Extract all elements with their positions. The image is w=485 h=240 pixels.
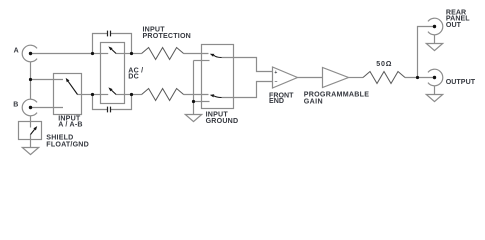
switch box SW1 INPUT A / A-B	[54, 74, 82, 115]
wire: capacitor C1 bypass left riser and lead	[93, 34, 108, 54]
resistor R1 INPUT PROTECTION (A path)	[142, 48, 184, 60]
switch arm SW2 shield float/gnd	[31, 129, 35, 134]
wire: capacitor C1 bypass right lead and riser	[111, 34, 132, 54]
wire: capacitor C2 bypass left riser and lead	[93, 95, 108, 110]
arrowhead SW4 bottom	[210, 94, 214, 97]
wire: resistor R1 left lead	[132, 53, 142, 55]
wire: SW2 box to ground symbol	[30, 140, 32, 148]
switch box SW4 INPUT GROUND	[202, 45, 234, 109]
svg-text:50Ω: 50Ω	[376, 60, 392, 68]
op-amp U1 FRONT END triangle	[273, 67, 298, 88]
node: output junction to rear panel riser	[416, 76, 419, 79]
wire: SW2 bottom contact stub	[30, 135, 32, 140]
node: A path capacitor junction left	[91, 52, 94, 55]
wire: input A center pin to first junction	[31, 53, 93, 55]
svg-text:PROTECTION: PROTECTION	[143, 32, 192, 40]
connector J4 OUTPUT (BNC circle)	[428, 69, 443, 86]
ground symbol below output	[426, 95, 442, 102]
resistor R2 INPUT PROTECTION (B path)	[142, 89, 184, 101]
arrowhead SW2	[33, 126, 37, 130]
wire: resistor R2 right lead into INPUT GROUND box	[184, 94, 209, 96]
switch arm SW4 input ground (bottom)	[214, 96, 222, 98]
node: A path capacitor junction right	[130, 52, 133, 55]
resistor R3 50 ohm output resistor	[363, 72, 405, 84]
wire: output shell to ground	[434, 86, 436, 95]
wire: B junction into AC/DC switch contact stub	[93, 94, 109, 96]
wire: shield bus junction to INPUT A/A-B box top input	[31, 79, 64, 81]
svg-text:+: +	[274, 70, 277, 76]
svg-text:A: A	[14, 47, 19, 54]
wire: AC/DC A switch output to junction	[116, 53, 131, 55]
node: rear panel out center pin	[433, 25, 436, 28]
node: shield bus junction	[29, 78, 32, 81]
svg-text:−: −	[275, 79, 278, 85]
connector J1 input A (BNC circle)	[22, 45, 37, 62]
node: B path capacitor junction right	[130, 93, 133, 96]
wire: shield bus junction down to input B shell	[30, 80, 32, 100]
wire: ground riser down to ground symbol	[193, 61, 195, 115]
arrowhead SW1	[66, 78, 70, 82]
node: output center pin	[433, 76, 436, 79]
arrowhead SW3 B	[108, 87, 112, 91]
wire: SW4 top ground contact from riser	[194, 60, 210, 62]
ground symbol below INPUT GROUND box	[185, 115, 201, 122]
svg-text:GROUND: GROUND	[206, 117, 239, 125]
wire: input A shell down to shield bus junction	[30, 62, 32, 80]
wire: SW1 common output to B-path junction	[78, 94, 93, 96]
svg-text:DC: DC	[128, 73, 139, 81]
svg-text:END: END	[269, 97, 284, 105]
wire: SW2 top contact stub	[30, 122, 32, 128]
wire: SW4 bottom ground contact from riser	[194, 101, 210, 103]
node: input B center pin	[29, 106, 32, 109]
coupling box SW3 AC / DC	[101, 43, 125, 104]
wire: AC/DC B switch output to junction	[116, 94, 131, 96]
svg-text:OUT: OUT	[446, 21, 462, 29]
wire: A junction into AC/DC switch contact stub	[93, 53, 109, 55]
wire: rear panel out shell to ground	[434, 35, 436, 44]
op-amp U2 PROGRAMMABLE GAIN triangle	[323, 68, 349, 88]
ground symbol below shield switch	[22, 148, 38, 155]
svg-text:OUTPUT: OUTPUT	[446, 78, 476, 86]
node: B path capacitor junction left	[91, 93, 94, 96]
connector J2 input B (BNC circle)	[22, 99, 37, 116]
switch arm SW4 input ground (top)	[214, 55, 222, 57]
wire: riser from output junction up to rear panel out pin	[418, 27, 435, 78]
capacitor C1 plates (AC coupling, A path)	[108, 31, 111, 37]
wire: resistor R1 right lead into INPUT GROUND box	[184, 53, 209, 55]
wire: input B center pin to INPUT A/A-B box bottom input	[31, 107, 64, 109]
wire: front end output to programmable gain input	[298, 77, 323, 79]
capacitor C2 plates (AC coupling, B path)	[108, 107, 111, 113]
wire: capacitor C2 bypass right lead and riser	[111, 95, 132, 110]
ground symbol below rear panel out	[426, 44, 442, 51]
connector J3 REAR PANEL OUT (BNC circle)	[428, 18, 443, 35]
arrowhead SW3 A	[108, 46, 112, 50]
svg-text:A / A-B: A / A-B	[58, 120, 83, 128]
svg-text:GAIN: GAIN	[304, 97, 323, 105]
svg-text:B: B	[13, 101, 18, 108]
node: ground riser to bottom ground contact	[192, 100, 195, 103]
switch arm SW1 input A/A-B	[68, 81, 77, 94]
wire: SW4 bottom common to front end - input	[222, 82, 273, 98]
switch arm SW3 AC/DC (B path)	[111, 90, 116, 94]
node: input A center pin	[29, 52, 32, 55]
switch box SW2 SHIELD FLOAT/GND	[19, 122, 42, 140]
wire: resistor R3 right lead to output pin	[405, 77, 435, 79]
wire: programmable gain output to resistor R3	[349, 77, 364, 79]
switch arm SW3 AC/DC (A path)	[111, 49, 116, 53]
wire: input B shell down to shield switch box	[30, 116, 32, 122]
wire: SW4 top common to front end + input	[222, 58, 273, 72]
arrowhead SW4 top	[210, 54, 215, 57]
wire: resistor R2 left lead	[132, 94, 142, 96]
svg-text:FLOAT/GND: FLOAT/GND	[46, 140, 89, 148]
